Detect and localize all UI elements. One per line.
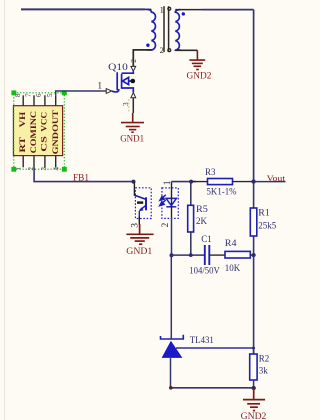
diode TL431 cathode bar xyxy=(161,335,184,339)
optocoupler U2 LED anode pin xyxy=(171,182,173,207)
wire Vout stub xyxy=(254,181,286,183)
transistor Q1 drain pin arrow xyxy=(131,66,136,71)
ground GND2 top xyxy=(189,50,205,69)
junction R4 R1 node xyxy=(252,253,256,257)
wire secondary bottom to GND2 xyxy=(175,49,197,51)
wire opto emitter to GND1 xyxy=(138,216,140,225)
svg-text:2K: 2K xyxy=(196,216,208,226)
svg-text:GND1: GND1 xyxy=(126,246,152,256)
transformer pin 1 pad circle xyxy=(168,7,171,10)
IC U1 pin names RT VH xyxy=(18,111,27,152)
svg-text:6: 6 xyxy=(35,93,43,97)
optocoupler U2 phototransistor emitter arrowhead xyxy=(139,207,144,211)
IC U1 top pin stubs xyxy=(23,95,56,105)
wire FB1 net from IC pin2 xyxy=(34,167,133,181)
optocoupler U2 LED dashed box xyxy=(162,188,178,219)
junction FB1 and opto collector xyxy=(132,180,136,184)
IC U1 pin names GNDOUT xyxy=(51,110,60,155)
capacitor C1 right pin to R4 xyxy=(209,254,225,256)
svg-text:GNDOUT: GNDOUT xyxy=(51,110,60,155)
wire right rail to ref node xyxy=(253,255,255,354)
wire TL431 cathode vertical xyxy=(170,255,172,338)
wire primary bottom to Q1 drain xyxy=(133,50,151,67)
transformer T1 primary polarity dot xyxy=(146,44,149,47)
IC U1 selection dashed box xyxy=(14,93,65,169)
resistor R3 body xyxy=(208,179,233,185)
svg-text:2: 2 xyxy=(129,59,138,63)
resistor R1 top pin xyxy=(253,182,255,208)
optocoupler U2 phototransistor collector pin xyxy=(134,182,145,199)
svg-text:1: 1 xyxy=(160,4,164,14)
junction GND2 bottom node xyxy=(252,386,256,390)
junction Vout node xyxy=(251,179,255,183)
resistor R4 body xyxy=(225,251,250,258)
svg-text:VH: VH xyxy=(18,111,27,127)
wire Q1 source to GND1 xyxy=(132,98,134,113)
svg-text:2: 2 xyxy=(160,223,170,228)
optocoupler U2 phototransistor emitter lead xyxy=(138,211,140,216)
wire secondary top to right rail xyxy=(175,9,253,11)
optocoupler U2 LED cathode pin xyxy=(171,207,173,217)
capacitor C1 plates xyxy=(205,245,210,265)
wire IC pin5 to Q1 gate xyxy=(56,91,100,95)
optocoupler U2 phototransistor base mark xyxy=(137,201,143,203)
wire TL431 anode down xyxy=(170,358,172,388)
svg-text:2: 2 xyxy=(160,45,164,55)
junction R3 left node xyxy=(189,180,193,184)
svg-text:GND1: GND1 xyxy=(120,133,144,143)
ground GND1 under optocoupler xyxy=(126,224,153,244)
transistor Q1 source highlight line xyxy=(128,99,130,113)
wire R3 node horizontal xyxy=(172,181,197,183)
transistor Q1 gate pin arrow xyxy=(106,89,112,94)
IC U1 bottom pin stubs xyxy=(23,156,56,168)
svg-text:5: 5 xyxy=(46,93,54,97)
IC U1 selection handles xyxy=(11,90,66,171)
transistor Q1 gate pin stub xyxy=(100,90,107,92)
svg-text:RT: RT xyxy=(18,136,27,152)
ground GND1 under Q1 xyxy=(121,113,144,132)
resistor R5 top pin from R3 node xyxy=(190,182,192,206)
resistor R2 bottom pin xyxy=(253,380,255,388)
optocoupler U2 phototransistor emitter xyxy=(140,206,146,211)
resistor R2 body xyxy=(250,354,257,380)
junction ref node xyxy=(252,347,255,350)
svg-text:3: 3 xyxy=(40,167,48,171)
wire primary top net xyxy=(21,8,151,10)
wire C1 node horizontal xyxy=(172,254,205,256)
svg-text:R3: R3 xyxy=(205,167,216,177)
transistor Q1 MOSFET body xyxy=(112,72,133,93)
wire LED cathode down to C1 node xyxy=(171,217,173,256)
optocoupler U2 phototransistor collector slant xyxy=(135,195,146,199)
wire right rail vertical xyxy=(253,10,255,182)
svg-text:R5: R5 xyxy=(196,204,208,214)
svg-text:R2: R2 xyxy=(259,353,270,363)
junction LED cathode / TL431 cathode node xyxy=(170,253,174,257)
resistor R1 bottom pin xyxy=(253,236,255,255)
optocoupler U2 LED light arrows xyxy=(160,195,166,206)
sheet border line xyxy=(4,0,6,420)
svg-text:4: 4 xyxy=(53,167,61,171)
resistor R4 right pin xyxy=(250,254,253,256)
svg-text:104/50V: 104/50V xyxy=(189,266,220,276)
transistor Q1 substrate dot xyxy=(131,79,136,84)
IC U1 pin names CS VCC xyxy=(39,112,48,152)
svg-text:R1: R1 xyxy=(258,207,270,217)
resistor R1 body xyxy=(250,208,256,236)
svg-text:CS: CS xyxy=(39,136,48,152)
svg-text:7: 7 xyxy=(24,93,32,97)
transformer T1 secondary polarity dot xyxy=(182,12,185,15)
transformer T1 secondary winding xyxy=(175,10,180,51)
junction TL431 anode xyxy=(169,386,173,390)
svg-text:GND2: GND2 xyxy=(187,71,212,81)
svg-text:3k: 3k xyxy=(259,365,269,375)
wire TL431 reference to right rail xyxy=(176,347,254,349)
svg-text:1: 1 xyxy=(98,81,103,91)
svg-text:C1: C1 xyxy=(201,234,212,244)
ground GND2 bottom xyxy=(243,388,265,411)
resistor R5 body xyxy=(188,205,194,232)
transformer T1 core xyxy=(164,6,169,52)
resistor R3 right pin xyxy=(233,181,254,183)
svg-text:GND2: GND2 xyxy=(241,411,267,420)
wire bottom net TL431 anode to GND2 xyxy=(171,387,254,389)
optocoupler U2 phototransistor base bar xyxy=(145,197,147,210)
svg-text:COMINC: COMINC xyxy=(29,111,38,154)
junction R5 bottom node xyxy=(189,253,193,257)
diode TL431 triangle xyxy=(162,341,183,358)
svg-text:25k5: 25k5 xyxy=(258,220,277,230)
optocoupler U2 LED symbol xyxy=(166,198,176,206)
resistor R5 bottom pin xyxy=(190,232,192,255)
svg-text:VCC: VCC xyxy=(39,112,48,132)
optocoupler U2 phototransistor dashed box xyxy=(135,188,151,219)
resistor R2 top pin xyxy=(253,348,255,354)
transformer T1 primary winding xyxy=(147,9,156,50)
svg-text:TL431: TL431 xyxy=(190,335,214,345)
IC U1 pin names COMINC xyxy=(29,111,38,154)
svg-text:10K: 10K xyxy=(225,263,241,273)
svg-text:5K1-1%: 5K1-1% xyxy=(207,186,237,196)
svg-text:FB1: FB1 xyxy=(73,173,89,183)
svg-text:Q10: Q10 xyxy=(108,62,128,72)
transistor Q1 source pin arrow xyxy=(131,93,136,98)
svg-text:R4: R4 xyxy=(225,238,237,248)
IC U1 yellow body xyxy=(13,106,62,156)
transformer pin 2 pad circle xyxy=(168,49,171,52)
resistor R3 left pin xyxy=(191,181,207,183)
svg-text:Vout: Vout xyxy=(267,173,286,183)
